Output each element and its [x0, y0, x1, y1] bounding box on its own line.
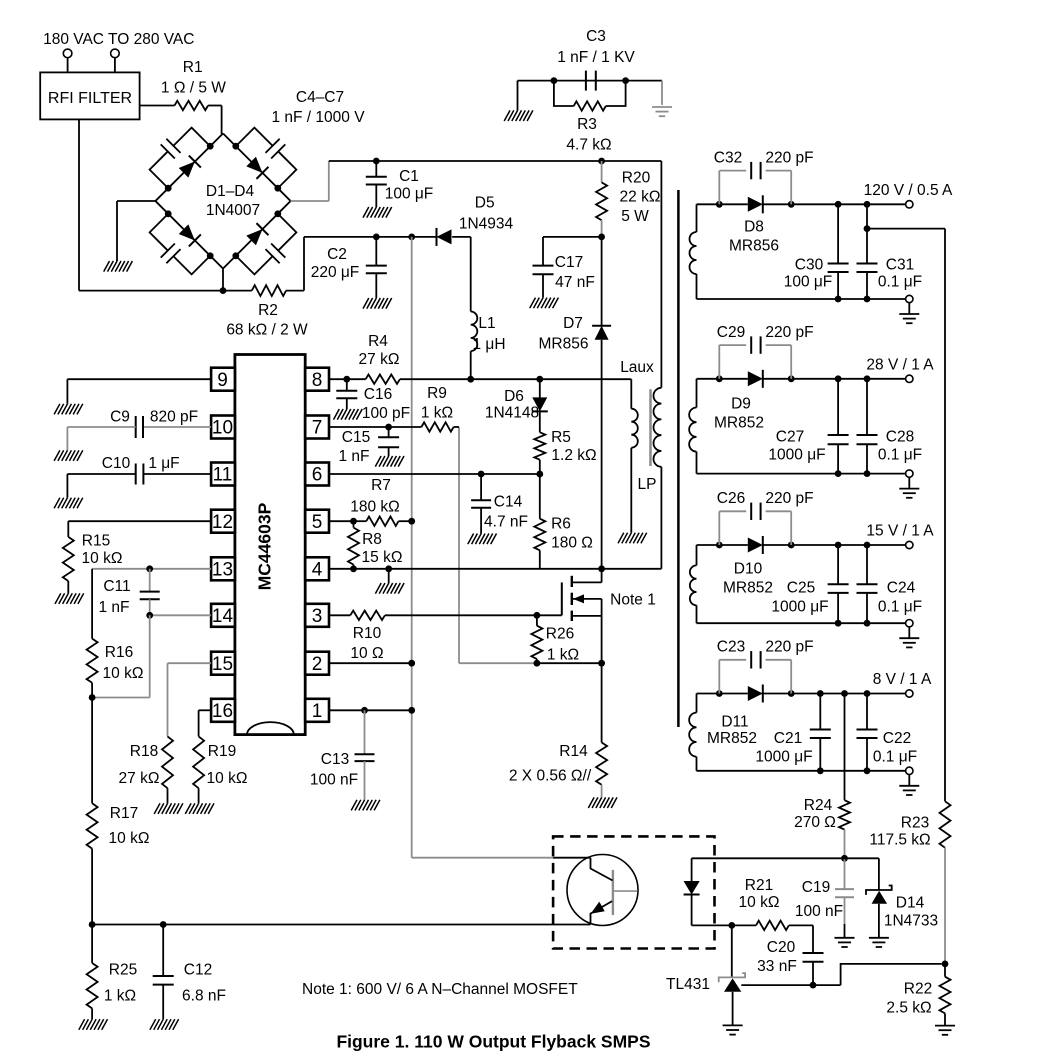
pin 13: [211, 557, 235, 580]
svg-text:5: 5: [312, 512, 323, 533]
svg-text:D9: D9: [731, 396, 751, 413]
svg-text:1: 1: [312, 701, 323, 722]
svg-text:C24: C24: [887, 580, 916, 597]
svg-text:220 pF: 220 pF: [765, 324, 813, 341]
svg-text:C20: C20: [767, 939, 796, 956]
svg-text:1 Ω / 5 W: 1 Ω / 5 W: [161, 80, 226, 97]
svg-text:270 Ω: 270 Ω: [794, 814, 836, 831]
svg-text:28 V / 1 A: 28 V / 1 A: [866, 357, 934, 374]
capacitor C3: [557, 28, 635, 91]
svg-text:MC44603P: MC44603P: [254, 502, 274, 590]
capacitor C1: [366, 161, 433, 207]
ground (Laux): [618, 533, 647, 544]
svg-text:3: 3: [312, 606, 323, 627]
svg-text:L1: L1: [478, 315, 495, 332]
svg-text:R16: R16: [105, 644, 133, 661]
wire output rail 8 V / 1 A: [697, 690, 906, 697]
svg-text:1N4148: 1N4148: [485, 405, 539, 422]
svg-text:1000 μF: 1000 μF: [771, 599, 828, 616]
terminal output 8 V / 1 A: [873, 671, 932, 697]
diode D2 with capacitor C5 (bridge top-right arm): [217, 108, 316, 207]
svg-text:R18: R18: [130, 743, 158, 760]
resistor R22: [886, 964, 950, 1025]
svg-text:1 kΩ: 1 kΩ: [104, 988, 136, 1005]
earth ground (15 V / 1 A return): [899, 627, 919, 648]
earth ground (R22): [935, 1026, 955, 1035]
ground (pin4): [375, 583, 404, 594]
resistor R21: [739, 877, 813, 930]
svg-text:D8: D8: [744, 219, 764, 236]
svg-text:C19: C19: [802, 879, 830, 896]
svg-text:15 kΩ: 15 kΩ: [362, 549, 403, 566]
pin 3: [305, 604, 329, 627]
terminal return 28 V / 1 A: [906, 470, 913, 477]
wire Vcc vertical bus: [412, 237, 591, 858]
resistor R8: [348, 521, 402, 569]
diode D11: [707, 685, 763, 748]
pin 11: [211, 463, 235, 486]
svg-text:8: 8: [312, 370, 323, 391]
wire pin4 ground stub: [388, 569, 390, 583]
svg-text:MR852: MR852: [707, 730, 757, 747]
svg-text:22 kΩ: 22 kΩ: [620, 189, 661, 206]
svg-text:15 V / 1 A: 15 V / 1 A: [866, 523, 934, 540]
earth ground (120 V / 0.5 A return): [899, 303, 919, 324]
svg-text:C26: C26: [717, 490, 745, 507]
resistor R10: [350, 611, 385, 662]
svg-text:Note 1: Note 1: [610, 592, 656, 609]
svg-text:D1–D4: D1–D4: [206, 183, 255, 200]
optocoupler LED: [684, 858, 700, 925]
svg-text:120 V / 0.5 A: 120 V / 0.5 A: [864, 182, 953, 199]
svg-text:R20: R20: [622, 170, 651, 187]
terminal return 120 V / 0.5 A: [906, 295, 913, 302]
resistor R16: [87, 569, 144, 698]
svg-text:6: 6: [312, 465, 323, 486]
resistor R24: [794, 694, 850, 859]
ground (R14): [588, 797, 617, 808]
wire C3 right to earth: [661, 81, 663, 105]
capacitor C24: [857, 545, 923, 623]
wire LED cathode to R21/TL431: [692, 922, 756, 929]
label C4-C7: [271, 89, 365, 126]
svg-text:C13: C13: [321, 751, 349, 768]
svg-text:1 nF: 1 nF: [98, 599, 129, 616]
wire bridge plus to top rail: [291, 161, 329, 201]
diode D6: [485, 379, 548, 421]
svg-text:TL431: TL431: [666, 976, 710, 993]
svg-text:1 nF / 1 KV: 1 nF / 1 KV: [557, 49, 635, 66]
wire bridge left corner to ground: [117, 201, 156, 261]
capacitor C30: [784, 204, 849, 299]
svg-text:1.2 kΩ: 1.2 kΩ: [551, 447, 596, 464]
svg-text:100 nF: 100 nF: [795, 903, 843, 920]
capacitor C29: [717, 324, 814, 379]
svg-text:12: 12: [212, 512, 233, 533]
label Note 1: [610, 592, 656, 609]
diode D1 with capacitor C4 (bridge top-left arm): [130, 108, 229, 207]
resistor R18: [119, 663, 212, 803]
svg-text:2.5 kΩ: 2.5 kΩ: [886, 1000, 931, 1017]
ground (C17): [530, 298, 559, 309]
capacitor C11: [98, 569, 159, 616]
wire TL431 ref rail: [741, 964, 941, 989]
svg-text:1 kΩ: 1 kΩ: [421, 405, 453, 422]
svg-text:C23: C23: [717, 639, 745, 656]
wire R20 to D7: [601, 237, 603, 326]
svg-text:8 V / 1 A: 8 V / 1 A: [873, 671, 932, 688]
wire output rail 28 V / 1 A: [697, 375, 906, 382]
svg-text:9: 9: [217, 370, 228, 391]
resistor R17: [87, 698, 150, 925]
svg-text:R17: R17: [110, 805, 138, 822]
svg-text:C12: C12: [184, 962, 212, 979]
svg-text:C2: C2: [327, 246, 347, 263]
svg-text:0.1 μF: 0.1 μF: [878, 599, 922, 616]
svg-text:RFI FILTER: RFI FILTER: [48, 90, 132, 107]
svg-text:220 pF: 220 pF: [765, 490, 813, 507]
wire R9 to source sense: [459, 427, 537, 663]
svg-text:1 nF / 1000 V: 1 nF / 1000 V: [271, 109, 365, 126]
wire Vcc rail: [304, 234, 471, 241]
wire output rail 120 V / 0.5 A: [697, 201, 906, 208]
resistor R19: [193, 710, 247, 803]
node R22/R23 junction: [942, 961, 949, 968]
ground (C16): [334, 409, 363, 420]
pin 14: [211, 604, 235, 627]
svg-text:10 kΩ: 10 kΩ: [739, 894, 780, 911]
earth ground (28 V / 1 A return): [899, 477, 919, 498]
diode D5: [437, 195, 514, 246]
svg-text:27 kΩ: 27 kΩ: [119, 770, 160, 787]
capacitor C32: [714, 150, 814, 205]
winding secondary (120 V / 0.5 A): [690, 204, 697, 299]
capacitor C15: [338, 427, 399, 465]
node AC input label: [43, 31, 194, 48]
svg-text:5 W: 5 W: [621, 208, 649, 225]
capacitor C16: [336, 379, 410, 422]
earth ground (8 V / 1 A return): [899, 774, 919, 795]
svg-text:4.7 nF: 4.7 nF: [484, 514, 528, 531]
winding LP (primary): [653, 161, 661, 569]
pin 12: [211, 510, 235, 533]
terminal output 28 V / 1 A: [866, 357, 934, 383]
ground (C2): [363, 298, 392, 309]
svg-text:C31: C31: [886, 257, 914, 274]
earth ground (C3 right): [652, 107, 672, 116]
winding secondary (15 V / 1 A): [690, 545, 697, 623]
wire bottom rail: [89, 921, 591, 928]
wire output return 8 V / 1 A: [697, 767, 906, 774]
svg-text:68 kΩ / 2 W: 68 kΩ / 2 W: [226, 322, 308, 339]
svg-text:100 μF: 100 μF: [385, 186, 434, 203]
op-amp U1 MC44603P controller IC body: [235, 355, 305, 735]
svg-text:10 kΩ: 10 kΩ: [207, 770, 248, 787]
capacitor C2: [311, 237, 387, 298]
capacitor C28: [857, 379, 923, 474]
svg-text:Laux: Laux: [620, 359, 654, 376]
svg-text:C32: C32: [714, 150, 742, 167]
earth ground (C19): [835, 938, 855, 947]
svg-text:11: 11: [213, 465, 233, 486]
label LP: [638, 476, 657, 493]
RFI filter block: [40, 72, 139, 119]
note 1 text: [302, 981, 578, 998]
resistor R7: [350, 477, 400, 526]
svg-text:C17: C17: [555, 254, 583, 271]
earth ground (D14): [869, 938, 889, 947]
svg-text:R5: R5: [551, 429, 571, 446]
svg-text:180 Ω: 180 Ω: [551, 535, 593, 552]
capacitor C13: [310, 710, 375, 800]
transistor U2 TL431 shunt regulator: [666, 925, 745, 1025]
svg-text:D14: D14: [896, 895, 925, 912]
svg-text:0.1 μF: 0.1 μF: [873, 749, 917, 766]
svg-text:180 kΩ: 180 kΩ: [350, 499, 400, 516]
ground (C13): [351, 800, 380, 811]
svg-text:R23: R23: [901, 815, 929, 832]
wire R2 to Vcc rail: [303, 237, 305, 291]
winding secondary (8 V / 1 A): [689, 694, 696, 771]
svg-text:R10: R10: [353, 625, 382, 642]
svg-text:0.1 μF: 0.1 μF: [878, 447, 922, 464]
svg-text:D6: D6: [504, 388, 524, 405]
svg-text:R3: R3: [577, 116, 597, 133]
svg-text:820 pF: 820 pF: [150, 409, 198, 426]
capacitor C21: [755, 694, 830, 771]
capacitor C14: [471, 474, 528, 534]
svg-text:C1: C1: [399, 168, 419, 185]
svg-text:C29: C29: [717, 324, 745, 341]
svg-text:33 nF: 33 nF: [757, 958, 797, 975]
resistor R14: [509, 663, 607, 797]
figure caption: [336, 1032, 650, 1052]
wire pin7 row: [329, 424, 421, 431]
wire aux rail (pin8/R4/L1/D6/Laux): [329, 376, 631, 383]
svg-text:1000 μF: 1000 μF: [768, 447, 825, 464]
svg-text:C11: C11: [103, 578, 130, 595]
svg-text:7: 7: [312, 418, 323, 439]
svg-text:10: 10: [212, 418, 233, 439]
wire bridge bottom corner: [220, 269, 227, 295]
svg-text:MR852: MR852: [714, 415, 764, 432]
svg-text:2: 2: [312, 654, 323, 675]
svg-text:1N4733: 1N4733: [884, 913, 938, 930]
pin 7: [305, 416, 329, 439]
svg-text:6.8 nF: 6.8 nF: [182, 988, 226, 1005]
wire pin14 row: [89, 612, 211, 701]
diode D14 zener: [866, 886, 938, 938]
wire pin13 row: [92, 565, 211, 572]
svg-text:1N4934: 1N4934: [459, 216, 514, 233]
svg-text:100 μF: 100 μF: [784, 274, 833, 291]
resistor R9: [421, 385, 459, 432]
svg-text:4: 4: [312, 559, 323, 580]
diode D10: [723, 536, 773, 597]
wire LED rail: [692, 857, 845, 859]
svg-text:220 pF: 220 pF: [765, 150, 813, 167]
pin 1: [305, 699, 329, 722]
terminal output 120 V / 0.5 A: [864, 182, 953, 208]
terminal AC line 2: [111, 49, 120, 72]
capacitor C10: [67, 455, 211, 498]
ground (C9): [54, 450, 83, 461]
svg-text:R25: R25: [109, 962, 137, 979]
svg-text:R8: R8: [362, 531, 382, 548]
svg-text:13: 13: [212, 559, 233, 580]
pin 15: [211, 652, 235, 675]
wire pin9 to ground: [67, 379, 211, 404]
wire R1 to bridge top: [222, 106, 223, 135]
label D1-D4 1N4007: [206, 183, 260, 219]
capacitor C20: [757, 925, 823, 985]
svg-text:14: 14: [212, 606, 234, 627]
resistor R5: [534, 411, 596, 474]
diode D9: [714, 370, 764, 432]
ground (C14): [468, 534, 497, 545]
svg-text:R14: R14: [559, 743, 588, 760]
svg-text:180 VAC TO 280 VAC: 180 VAC TO 280 VAC: [43, 31, 194, 48]
transistor Q1 power MOSFET (Note 1): [537, 569, 602, 663]
svg-text:R19: R19: [208, 743, 236, 760]
terminal return 15 V / 1 A: [906, 620, 913, 627]
svg-text:10 kΩ: 10 kΩ: [103, 665, 144, 682]
winding Laux: [631, 379, 638, 533]
svg-text:D10: D10: [734, 561, 763, 578]
capacitor C9: [67, 409, 211, 451]
inductor L1: [471, 312, 506, 380]
terminal AC line 1: [63, 49, 72, 72]
ground (C12): [150, 1019, 179, 1030]
diode D7: [539, 315, 612, 353]
svg-text:C27: C27: [776, 429, 804, 446]
capacitor C31: [857, 204, 923, 299]
svg-text:R6: R6: [551, 516, 571, 533]
svg-text:MR852: MR852: [723, 580, 773, 597]
svg-text:D7: D7: [563, 315, 583, 332]
svg-text:C30: C30: [795, 257, 824, 274]
wire output return 28 V / 1 A: [697, 470, 906, 477]
pin 9: [211, 368, 235, 391]
svg-text:MR856: MR856: [539, 336, 589, 353]
svg-text:C16: C16: [364, 386, 392, 403]
ground (C10): [54, 498, 83, 509]
ground (R25): [79, 1019, 108, 1030]
ground (R18): [154, 803, 183, 814]
capacitor C26: [717, 490, 814, 545]
wire C3 left to ground: [517, 81, 519, 111]
svg-text:R4: R4: [368, 333, 388, 350]
svg-text:1 μH: 1 μH: [472, 336, 505, 353]
wire C3 rail: [518, 77, 663, 84]
wire D7 to drain node: [601, 340, 603, 569]
capacitor C12: [153, 925, 226, 1020]
capacitor C25: [771, 545, 848, 623]
svg-text:R2: R2: [258, 302, 278, 319]
terminal output 15 V / 1 A: [866, 523, 934, 549]
svg-text:R1: R1: [183, 59, 203, 76]
svg-text:10 kΩ: 10 kΩ: [82, 550, 123, 567]
capacitor C23: [717, 639, 814, 694]
capacitor C27: [768, 379, 848, 474]
winding secondary (28 V / 1 A): [689, 379, 696, 474]
svg-text:R21: R21: [745, 877, 773, 894]
pin 10: [211, 416, 235, 439]
svg-text:Figure 1. 110 W Output Flyback: Figure 1. 110 W Output Flyback SMPS: [336, 1032, 650, 1052]
optocoupler dashed box: [553, 836, 714, 948]
svg-text:10 kΩ: 10 kΩ: [109, 830, 150, 847]
svg-text:R7: R7: [371, 477, 391, 494]
svg-text:27 kΩ: 27 kΩ: [359, 351, 400, 368]
diode D8: [729, 195, 779, 254]
svg-text:C21: C21: [774, 730, 802, 747]
optocoupler transistor: [567, 855, 638, 926]
svg-text:R15: R15: [82, 533, 110, 550]
svg-text:4.7 kΩ: 4.7 kΩ: [566, 137, 611, 154]
svg-text:100 nF: 100 nF: [310, 772, 358, 789]
resistor R4: [359, 333, 400, 384]
svg-text:117.5 kΩ: 117.5 kΩ: [869, 832, 930, 849]
svg-text:1N4007: 1N4007: [206, 202, 260, 219]
svg-text:D5: D5: [475, 195, 495, 212]
svg-text:R9: R9: [427, 385, 447, 402]
wire D5 anode to L1: [470, 237, 472, 312]
resistor R3: [554, 81, 626, 154]
wire 120V feedback tap: [864, 225, 945, 801]
diode D3 with capacitor C6 (bridge bottom-left arm): [130, 195, 229, 294]
svg-text:C3: C3: [586, 28, 606, 45]
svg-text:220 pF: 220 pF: [765, 639, 813, 656]
node R20/C17/D7 junction: [598, 234, 605, 241]
wire drain rail (pin4/R6/LP/MOSFET): [329, 565, 661, 572]
svg-text:C25: C25: [787, 580, 815, 597]
svg-text:1 μF: 1 μF: [148, 455, 179, 472]
ground (bridge negative): [104, 261, 133, 272]
resistor R23: [869, 801, 950, 964]
earth ground (TL431): [723, 1025, 743, 1034]
svg-text:R24: R24: [804, 797, 833, 814]
capacitor C19: [795, 858, 854, 938]
wire pin2 row: [329, 660, 415, 667]
wire RFI filter to bottom rail: [79, 119, 222, 290]
pin 2: [305, 652, 329, 675]
capacitor C22: [857, 694, 918, 771]
svg-text:D11: D11: [721, 714, 748, 731]
svg-text:1 kΩ: 1 kΩ: [547, 647, 579, 664]
svg-text:2 X 0.56 Ω//: 2 X 0.56 Ω//: [509, 768, 592, 785]
diode D4 with capacitor C7 (bridge bottom-right arm): [217, 195, 316, 294]
wire output rail 15 V / 1 A: [697, 542, 906, 549]
transformer core (primary gap bar): [649, 389, 652, 466]
pin 4: [305, 557, 329, 580]
resistor R20: [596, 161, 660, 237]
svg-text:10 Ω: 10 Ω: [350, 645, 383, 662]
wire pin6 rail: [329, 471, 543, 478]
wire pin5 row: [329, 518, 415, 525]
svg-text:R22: R22: [904, 981, 932, 998]
wire pin3 row (gate): [329, 612, 540, 619]
svg-text:1000 μF: 1000 μF: [755, 749, 812, 766]
svg-text:C15: C15: [342, 429, 370, 446]
ground (R15): [55, 593, 84, 604]
svg-text:220 μF: 220 μF: [311, 264, 360, 281]
wire +DC top rail: [329, 158, 662, 165]
svg-text:R26: R26: [546, 626, 574, 643]
wire output return 120 V / 0.5 A: [697, 296, 906, 303]
resistor R25: [87, 925, 138, 1020]
resistor R15: [63, 521, 211, 593]
pin 16: [211, 699, 235, 722]
